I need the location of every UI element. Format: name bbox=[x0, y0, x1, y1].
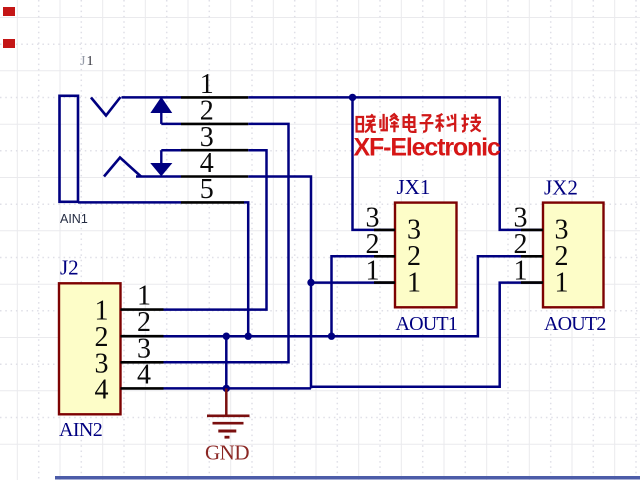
red marker square top bbox=[3, 7, 15, 16]
svg-text:4: 4 bbox=[137, 359, 151, 390]
connector J1 pin 2 bbox=[181, 96, 248, 127]
wire J2 pin4 bus to JX2 pin1 bbox=[164, 283, 544, 389]
connector J1 designator label bbox=[80, 54, 94, 69]
svg-text:1: 1 bbox=[555, 267, 569, 298]
connector JX1 pin 1 bbox=[366, 255, 396, 286]
text logo chinese zi (子) bbox=[420, 115, 434, 131]
svg-text:AOUT2: AOUT2 bbox=[544, 313, 606, 335]
wire J1 pin5 lead from body bbox=[78, 201, 181, 204]
wire ground stem from bus bbox=[225, 336, 228, 388]
connector J1 label AIN1 bbox=[60, 212, 88, 226]
connector J1 pin 3 bbox=[181, 122, 248, 153]
svg-text:AIN2: AIN2 bbox=[59, 419, 102, 441]
wire J1 pin3 lead from arrow stem bbox=[161, 149, 181, 152]
connector J2 body bbox=[59, 283, 121, 414]
junction dot (331.5,336.2) bbox=[328, 333, 335, 340]
svg-text:4: 4 bbox=[95, 374, 109, 405]
connector JX2 label AOUT2 bbox=[544, 313, 606, 335]
wire ground bus branch up to JX1 pin2 bbox=[332, 256, 396, 336]
connector JX2 pin 3 bbox=[514, 203, 544, 234]
connector J1 switch contact chevron top bbox=[91, 97, 121, 116]
connector JX1 designator label bbox=[397, 175, 431, 199]
connector JX2 pin 1 bbox=[514, 255, 544, 286]
wire J1 pin2 lead from arrow stem bbox=[161, 123, 181, 126]
svg-text:AOUT1: AOUT1 bbox=[396, 313, 458, 335]
wire J1 pin5 to ground bus bbox=[244, 202, 248, 336]
svg-text:J2: J2 bbox=[60, 256, 79, 280]
ground symbol GND bbox=[207, 388, 250, 437]
svg-text:5: 5 bbox=[200, 174, 214, 205]
bottom scrollbar strip bbox=[55, 476, 640, 480]
text logo chinese dian (电) bbox=[404, 114, 416, 132]
connector JX2 body bbox=[543, 203, 604, 308]
red marker square lower bbox=[3, 39, 15, 48]
connector JX1 body bbox=[395, 203, 457, 308]
svg-text:XF-Electronic: XF-Electronic bbox=[354, 134, 501, 162]
connector J1 pin 5 bbox=[181, 174, 244, 205]
junction dot (226.3,336.2) bbox=[223, 333, 230, 340]
connector J1 ring contact arrow down (pin 3) bbox=[151, 150, 171, 175]
wire node A to JX1 pin1 bbox=[311, 281, 395, 284]
wire J1 pin4 down to node A bbox=[248, 177, 311, 283]
wire J1 sleeve to switch bbox=[122, 96, 182, 99]
wire J1 pin2 to J2 pin3 bbox=[164, 124, 289, 362]
connector J1 tip contact arrow up (pin 2) bbox=[151, 98, 171, 124]
junction dot at (352.5,97.4) bbox=[349, 94, 356, 101]
svg-text:1: 1 bbox=[407, 267, 421, 298]
text logo chinese ji (技) bbox=[461, 114, 481, 132]
connector J2 pin 3 bbox=[121, 333, 164, 364]
svg-text:AIN1: AIN1 bbox=[60, 212, 88, 226]
ground label GND bbox=[205, 441, 249, 465]
connector J2 pin 1 bbox=[121, 281, 164, 312]
connector J2 pin 4 bbox=[121, 359, 164, 390]
junction dot node A (311,282.5) bbox=[307, 279, 314, 286]
connector JX1 pin 3 bbox=[366, 203, 396, 234]
connector J1 pin 4 bbox=[181, 148, 248, 179]
connector J2 inside pin numbers bbox=[95, 296, 109, 406]
wire ground bus J2 pin2 to JX2 pin2 bbox=[164, 256, 544, 336]
connector JX2 designator label bbox=[544, 176, 578, 200]
svg-text:GND: GND bbox=[205, 441, 249, 465]
wire node A down to bottom bus bbox=[310, 283, 313, 389]
connector J1 jack body bbox=[60, 96, 79, 202]
junction dot (226.3,388.4) bbox=[223, 385, 230, 392]
connector JX2 inside pin numbers bbox=[555, 214, 569, 298]
svg-text:JX2: JX2 bbox=[544, 176, 578, 200]
connector JX1 inside pin numbers bbox=[407, 214, 421, 298]
wire J1 pin4 lead from chevron bbox=[136, 175, 181, 178]
svg-text:J: J bbox=[80, 54, 86, 69]
connector J1 switch contact chevron bottom bbox=[104, 158, 141, 177]
wire branch junction to JX1 pin3 bbox=[353, 97, 396, 230]
svg-text:1: 1 bbox=[366, 255, 380, 286]
connector J2 label AIN2 bbox=[59, 419, 102, 441]
connector J2 designator label bbox=[60, 256, 79, 280]
text logo chinese feng (峰) bbox=[380, 114, 399, 132]
connector J2 pin 2 bbox=[121, 307, 164, 338]
connector JX1 label AOUT1 bbox=[396, 313, 458, 335]
wire net 1: J1 pin1 to JX2 pin3 bbox=[248, 97, 543, 230]
svg-text:1: 1 bbox=[514, 255, 528, 286]
text logo XF-Electronic bbox=[354, 134, 501, 162]
connector JX2 pin 2 bbox=[514, 229, 544, 260]
connector J1 pin 1 bbox=[181, 69, 248, 100]
text logo chinese ke (科) bbox=[435, 114, 455, 132]
svg-text:JX1: JX1 bbox=[397, 175, 431, 199]
wire J1 pin3 to J2 pin1 bbox=[164, 150, 267, 309]
text logo chinese xiao (晓) bbox=[357, 114, 376, 132]
junction dot (248.2,336.2) bbox=[245, 333, 252, 340]
connector JX1 pin 2 bbox=[366, 229, 396, 260]
svg-text:1: 1 bbox=[87, 54, 94, 69]
